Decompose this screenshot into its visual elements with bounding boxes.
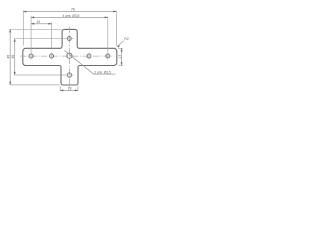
hole H1 crosshair: [30, 53, 32, 60]
leader big hole: [64, 50, 93, 74]
svg-text:2 отв. Ø3,5: 2 отв. Ø3,5: [94, 70, 111, 74]
dim line 36 vertical left: [14, 39, 16, 75]
svg-text:45: 45: [6, 55, 10, 59]
dim line right vertical: [121, 48, 123, 65]
hole H3 center big: [67, 53, 72, 58]
extension line flap hole: [14, 74, 66, 76]
svg-text:4 отв. Ø3,5: 4 отв. Ø3,5: [63, 14, 80, 18]
extension line flap bottom left: [59, 86, 61, 92]
svg-text:36: 36: [11, 55, 15, 59]
hole H4 crosshair: [88, 53, 90, 60]
extension line arm bottom right: [118, 65, 123, 67]
dim line flap width: [60, 89, 78, 91]
svg-text:18: 18: [68, 87, 72, 91]
extension line arm top right: [118, 47, 123, 49]
dim line 76 top: [23, 10, 116, 12]
svg-text:19: 19: [36, 20, 40, 24]
hole H7 bottom flap: [67, 73, 71, 77]
extension line tab top: [9, 28, 61, 30]
horizontal centerline: [20, 55, 114, 57]
extension line hole2: [51, 22, 53, 47]
dim line hole pitch: [31, 16, 108, 18]
svg-text:76: 76: [71, 7, 75, 11]
hole H1: [29, 54, 33, 58]
extension line part left top: [22, 11, 24, 46]
extension line hole1: [30, 16, 32, 53]
hole H2 crosshair: [51, 53, 53, 60]
hole H4: [87, 54, 91, 58]
hole H6 top tab: [67, 37, 71, 41]
extension line hole5: [107, 16, 109, 52]
part outline (cross-shaped plate): [23, 29, 117, 85]
radius leader R: [117, 41, 124, 47]
vertical centerline: [68, 27, 70, 88]
hole H5 crosshair: [107, 53, 109, 60]
dim line 45 vertical left: [9, 29, 11, 85]
extension line flap bottom right: [77, 86, 79, 92]
flap hole crosshair tick: [65, 74, 73, 76]
extension line tab hole: [14, 38, 66, 40]
dim line 19: [31, 23, 51, 25]
tab hole crosshair tick: [65, 38, 73, 40]
hole H5: [106, 54, 110, 58]
svg-text:17: 17: [118, 55, 122, 59]
extension line flap bottom: [9, 84, 59, 86]
hole H2: [50, 54, 54, 58]
extension line part right top: [115, 11, 117, 46]
svg-text:R2: R2: [124, 37, 128, 41]
